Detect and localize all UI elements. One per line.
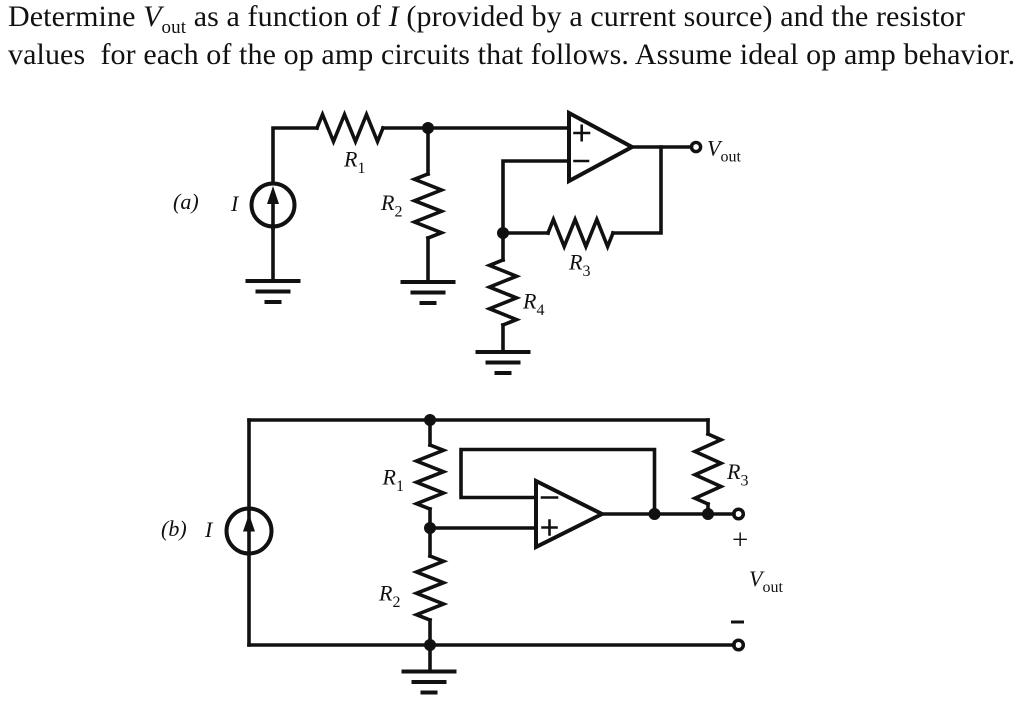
wire: node B down to R4 — [501, 233, 505, 260]
node: R3 bottom/output junction — [702, 508, 714, 520]
ground under R4 (a) — [478, 352, 529, 373]
node A (R1/R2 junction) — [422, 122, 434, 134]
wire: R3 right to output branch — [613, 147, 661, 233]
ground under bottom node (b) — [428, 645, 432, 672]
wire: (b) left rail with current source — [247, 420, 251, 645]
wire: R4 to ground — [501, 325, 505, 352]
node middle (R1/R2/+ input) — [424, 522, 436, 534]
wire: op-amp output to terminal — [632, 145, 692, 149]
resistor R4 (a) vertical — [490, 260, 517, 325]
node bottom (R2/ground/bottom rail) — [424, 639, 436, 651]
node: feedback/output junction — [649, 508, 661, 520]
svg-text:R4: R4 — [522, 289, 544, 320]
svg-text:(b): (b) — [161, 516, 187, 541]
top wire (b) — [249, 418, 708, 422]
op-amp U1 minus input sign — [575, 160, 589, 163]
wire: R1 to middle node — [428, 509, 432, 528]
resistor R1 (b) vertical — [417, 445, 444, 509]
output terminal - (b) — [734, 640, 744, 650]
node top (R1 top) — [424, 414, 436, 426]
node B (R3/R4/inverting junction) — [497, 227, 509, 239]
current source I (a) — [252, 184, 295, 227]
problem statement text — [8, 0, 1018, 73]
ground under current source (a) — [248, 281, 299, 302]
svg-text:R3: R3 — [568, 250, 590, 281]
wire: node B to R3 — [503, 231, 548, 235]
wire: R2 to ground — [426, 238, 430, 282]
svg-text:R2: R2 — [378, 581, 400, 612]
feedback wire: minus input loop over op-amp — [461, 450, 655, 515]
wire: R3 to output node — [706, 504, 710, 514]
op-amp U1 (a) — [569, 113, 632, 181]
current source I (b) — [227, 509, 272, 554]
wire: top node to R1 — [428, 420, 432, 445]
wire: (a) current source bottom to ground — [271, 227, 275, 281]
svg-text:R2: R2 — [380, 190, 402, 221]
svg-text:R3: R3 — [726, 459, 748, 490]
op-amp U2 plus input sign — [543, 521, 557, 535]
wire: node down to R2 — [426, 128, 430, 174]
svg-text:R1: R1 — [343, 147, 365, 178]
wire: R1 to node to op-amp + input — [383, 126, 569, 130]
wire: middle node to op-amp + input — [430, 526, 536, 530]
wire: op-amp output to terminal (b) — [602, 512, 734, 516]
svg-text:(a): (a) — [173, 189, 199, 214]
op-amp U2 minus input sign — [542, 496, 557, 499]
output terminal + (b) — [734, 509, 744, 519]
svg-text:Vout: Vout — [749, 566, 783, 596]
resistor R3 (a) horizontal — [548, 220, 613, 247]
wire: top wire down to R3 (b) — [706, 420, 710, 434]
svg-text:Vout: Vout — [707, 136, 741, 166]
wire: (a) current source top to R1 — [273, 128, 317, 183]
op-amp U1 plus input sign — [575, 126, 590, 140]
resistor R3 (b) vertical — [695, 434, 721, 504]
resistor R1 (a) horizontal — [317, 115, 383, 142]
svg-text:R1: R1 — [382, 465, 404, 496]
svg-text:I: I — [230, 191, 240, 216]
ground under R2 (a) — [403, 282, 454, 303]
wire: op-amp minus input to feedback node — [503, 161, 569, 233]
bottom wire (b) — [249, 643, 734, 647]
svg-text:I: I — [204, 517, 214, 542]
resistor R2 (a) vertical — [415, 174, 442, 238]
label minus terminal (b) — [731, 621, 744, 624]
resistor R2 (b) vertical — [428, 528, 432, 556]
svg-text:+: + — [732, 524, 748, 556]
wire: R2 to bottom node — [428, 620, 432, 645]
op-amp U2 (b) — [536, 481, 602, 547]
output terminal circle (a) — [691, 142, 700, 151]
